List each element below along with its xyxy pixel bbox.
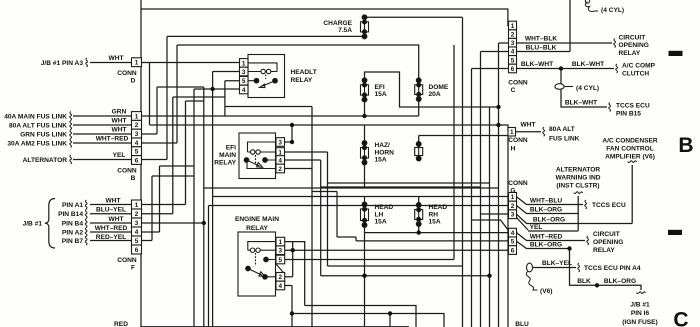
svg-text:6: 6 xyxy=(135,247,139,254)
squiggle TCCS ECU PIN A4 xyxy=(578,263,580,272)
wire vertical x498 xyxy=(498,43,500,327)
marker bar A xyxy=(669,51,683,56)
svg-text:HAZ/: HAZ/ xyxy=(375,142,391,149)
wire squiggly V6 tail xyxy=(526,272,537,291)
svg-text:15A: 15A xyxy=(375,219,387,226)
svg-text:TCCS ECU: TCCS ECU xyxy=(616,102,650,109)
svg-text:EFI: EFI xyxy=(226,145,236,152)
wire below CONN F vertical RED xyxy=(140,255,142,327)
svg-text:4: 4 xyxy=(135,229,139,236)
wire CONN G p3 exit BLK-ORG to A/C amp xyxy=(517,165,633,224)
wire lower box 313 xyxy=(292,314,444,327)
squiggle PIN B4 xyxy=(85,219,87,228)
svg-text:PIN I6: PIN I6 xyxy=(631,310,650,317)
relay EFI MAIN RELAY box xyxy=(239,133,276,179)
wire CONN C p6 feed and exit BLK-WHT xyxy=(472,68,615,70)
svg-text:1: 1 xyxy=(279,239,283,246)
svg-text:BLK–ORG: BLK–ORG xyxy=(533,217,565,224)
svg-text:PIN A2: PIN A2 xyxy=(62,229,83,236)
svg-text:1: 1 xyxy=(135,60,139,67)
squiggle TCCS ECU xyxy=(585,200,587,209)
wire HEAD LH fuse stubs xyxy=(364,197,366,327)
wire headlight relay p5 xyxy=(225,81,240,116)
wire EFI relay p4 out xyxy=(285,160,490,276)
svg-text:15A: 15A xyxy=(375,91,387,98)
svg-text:2: 2 xyxy=(511,203,515,210)
svg-text:3: 3 xyxy=(242,69,246,76)
svg-text:6: 6 xyxy=(511,247,515,254)
svg-text:WARNING IND: WARNING IND xyxy=(555,174,600,181)
svg-text:BLU–YEL: BLU–YEL xyxy=(96,207,126,214)
svg-text:4: 4 xyxy=(511,230,515,237)
squiggle GRN FUS xyxy=(70,130,72,139)
svg-text:4: 4 xyxy=(135,140,139,147)
svg-text:BLK–WHT: BLK–WHT xyxy=(572,61,604,68)
squiggle 30A AM2 xyxy=(70,139,72,148)
wire CONN B p6 YEL riser to bus xyxy=(142,36,168,159)
squiggle A/C condenser amp xyxy=(628,161,637,163)
wire junction branch left xyxy=(157,86,204,88)
svg-text:3: 3 xyxy=(278,139,282,146)
fuse CHARGE 7.5A xyxy=(361,15,369,39)
svg-text:WHT: WHT xyxy=(111,126,126,133)
fuse HEAD RH 15A xyxy=(415,203,423,227)
svg-text:BLK–WHT: BLK–WHT xyxy=(565,99,597,106)
svg-text:G: G xyxy=(510,187,515,194)
wire CONN H p1 exit WHT xyxy=(516,131,542,133)
svg-text:OPENING: OPENING xyxy=(619,42,649,49)
svg-text:RELAY: RELAY xyxy=(291,77,313,84)
squiggle PIN B7 xyxy=(85,236,87,245)
node lower 313 junction right xyxy=(388,311,392,315)
svg-text:BLU–BLK: BLU–BLK xyxy=(526,44,557,51)
wire CONN C p4 feed and exit BLU-BLK xyxy=(481,0,571,52)
svg-text:B: B xyxy=(678,134,693,157)
squiggle PIN B14 xyxy=(85,209,87,218)
svg-text:15A: 15A xyxy=(429,219,441,226)
svg-text:BLK–WHT: BLK–WHT xyxy=(521,61,553,68)
brace J/B #1 xyxy=(45,199,55,249)
svg-text:5: 5 xyxy=(242,78,246,85)
wire BLK-WHT drop to 4CYL oval xyxy=(561,69,607,108)
node headlight relay p4 junction xyxy=(210,87,214,91)
wire head fuse bottoms to CONN G p4 xyxy=(365,232,509,234)
connector CONN B pins 1-6 xyxy=(132,112,142,121)
squiggle ALTERNATOR xyxy=(70,155,72,164)
connector ENGINE relay pins 1,3,5,2,4 xyxy=(276,237,285,246)
wire J/B #1 PIN A3 lead xyxy=(90,62,132,64)
svg-text:1: 1 xyxy=(135,202,139,209)
wire bus to CHARGE fuse bottom xyxy=(167,35,365,37)
wire CONN F p3 to junction xyxy=(142,222,204,224)
svg-text:WHT: WHT xyxy=(520,122,535,129)
wire CONN D p1 to CONN B p2 net xyxy=(149,63,151,126)
svg-text:OPENING: OPENING xyxy=(593,239,623,246)
svg-text:YEL: YEL xyxy=(113,152,126,159)
svg-text:CIRCUIT: CIRCUIT xyxy=(619,34,646,41)
svg-text:20A: 20A xyxy=(429,91,441,98)
wire CONN B pin leads xyxy=(73,116,132,160)
svg-text:BLK: BLK xyxy=(577,278,591,285)
svg-text:PIN A1: PIN A1 xyxy=(62,202,83,209)
svg-text:1: 1 xyxy=(510,129,514,136)
squiggle circuit opening relay bottom xyxy=(587,236,589,245)
wire bottom edge xyxy=(141,326,409,327)
node BLK-WHT junction xyxy=(559,66,563,70)
wire CONN G p4 exit WHT-RED xyxy=(517,233,586,241)
svg-text:4: 4 xyxy=(279,283,283,290)
squiggle 80A ALT FUS LINK right xyxy=(543,127,545,136)
node y275 right xyxy=(487,274,491,278)
svg-text:FUS LINK: FUS LINK xyxy=(549,135,580,142)
svg-text:(IGN FUSE): (IGN FUSE) xyxy=(622,319,658,326)
wire CHARGE fuse top to vertical xyxy=(365,16,463,18)
svg-text:LH: LH xyxy=(375,211,384,218)
squiggle alternator warning ind xyxy=(574,192,583,194)
svg-text:5: 5 xyxy=(279,257,283,264)
svg-text:CLUTCH: CLUTCH xyxy=(622,70,649,77)
svg-text:PIN B7: PIN B7 xyxy=(62,238,84,245)
wire vertical x508 lower xyxy=(507,136,509,327)
wire HAZ fuse bottom stub xyxy=(364,163,366,188)
node lower 313 junction left xyxy=(290,311,294,315)
fuse EFI 15A xyxy=(361,78,369,102)
fuse HAZ/HORN 15A xyxy=(361,141,369,165)
wire line135 to CONN H foot xyxy=(419,135,508,137)
wire EFI relay p2 out xyxy=(285,169,357,327)
svg-text:WHT: WHT xyxy=(105,197,120,204)
svg-text:J/B #1: J/B #1 xyxy=(23,221,43,228)
svg-text:7.5A: 7.5A xyxy=(338,27,352,34)
relay ENGINE internals xyxy=(248,242,276,277)
node BLK-ORG junction at circuit opening relay xyxy=(567,246,571,250)
svg-text:ALTERNATOR: ALTERNATOR xyxy=(556,166,601,173)
svg-text:WHT–RED: WHT–RED xyxy=(96,135,129,142)
svg-text:40A MAIN FUS LINK: 40A MAIN FUS LINK xyxy=(4,113,67,120)
svg-text:3: 3 xyxy=(511,40,515,47)
wire BLK-YEL to TCCS A4 xyxy=(533,267,577,269)
connector oval 4CYL xyxy=(555,84,564,90)
wire CONN G p1 exit to TCCS ECU xyxy=(517,197,584,205)
wire headlight relay p3/p4 riser xyxy=(212,72,214,197)
svg-text:MAIN: MAIN xyxy=(219,152,236,159)
node bus125/EFI relay p3 xyxy=(290,123,294,127)
svg-text:CONN: CONN xyxy=(508,137,528,144)
squiggle circuit opening relay top xyxy=(614,39,616,48)
squiggle 40A MAIN xyxy=(70,112,72,121)
svg-text:CONN: CONN xyxy=(117,168,137,175)
svg-text:RELAY: RELAY xyxy=(214,160,236,167)
svg-text:BLU: BLU xyxy=(515,321,529,327)
svg-text:5: 5 xyxy=(511,239,515,246)
node BLK junction xyxy=(595,283,599,287)
connector CONN H pin 1 xyxy=(508,128,516,137)
svg-text:3: 3 xyxy=(135,131,139,138)
wire bus to DOME fuse top xyxy=(177,45,419,80)
svg-text:CONN: CONN xyxy=(508,79,528,86)
svg-text:6: 6 xyxy=(511,66,515,73)
svg-text:1: 1 xyxy=(511,194,515,201)
wire vertical x489 xyxy=(489,107,491,327)
svg-text:RELAY: RELAY xyxy=(593,247,615,254)
relay ENGINE crossover box diagonal xyxy=(276,264,285,274)
node y107/x498 xyxy=(496,105,500,109)
wire CONN F p2 riser xyxy=(142,97,225,214)
relay HEADLT internals xyxy=(248,63,277,86)
svg-text:B: B xyxy=(131,175,136,182)
svg-text:WHT–BLU: WHT–BLU xyxy=(530,198,562,205)
squiggle PIN A1 xyxy=(85,200,87,209)
svg-text:(4 CYL): (4 CYL) xyxy=(576,85,599,92)
wire bus125 CONN B p2 to CONN H xyxy=(150,125,509,132)
connector CONN C pins 1-6 xyxy=(509,21,517,30)
svg-text:2: 2 xyxy=(135,211,139,218)
svg-text:4: 4 xyxy=(278,157,282,164)
svg-text:WHT–RED: WHT–RED xyxy=(530,234,563,241)
wire HAZ fuse top stub xyxy=(364,125,366,143)
svg-text:HEADLT: HEADLT xyxy=(291,69,317,76)
svg-text:GRN: GRN xyxy=(112,108,127,115)
wire lower box 305 xyxy=(305,306,416,327)
wire bus188 xyxy=(204,187,499,189)
svg-text:BLK–ORG: BLK–ORG xyxy=(530,242,562,249)
svg-text:3: 3 xyxy=(279,248,283,255)
squiggle 80A ALT xyxy=(70,121,72,130)
svg-text:J/B #1 PIN A3: J/B #1 PIN A3 xyxy=(41,60,84,67)
wire HEAD RH fuse stubs xyxy=(418,197,420,233)
svg-text:CHARGE: CHARGE xyxy=(323,20,352,27)
svg-text:CONN: CONN xyxy=(508,180,528,187)
wire CONN F p5 riser xyxy=(142,176,195,241)
wire EFI relay p1 out xyxy=(285,152,490,266)
wire headlight relay p3 xyxy=(213,71,240,73)
svg-text:ENGINE MAIN: ENGINE MAIN xyxy=(235,216,279,223)
svg-text:5: 5 xyxy=(135,238,139,245)
svg-text:(INST CLSTR): (INST CLSTR) xyxy=(556,183,599,190)
wire vertical x462 xyxy=(462,17,464,327)
svg-text:(4 CYL): (4 CYL) xyxy=(601,7,624,14)
svg-text:PIN B14: PIN B14 xyxy=(58,211,83,218)
svg-text:BLK–YEL: BLK–YEL xyxy=(542,260,572,267)
svg-text:15A: 15A xyxy=(375,157,387,164)
svg-text:1: 1 xyxy=(278,149,282,156)
node bus125/CONN H feed xyxy=(496,123,500,127)
svg-text:CONN: CONN xyxy=(117,70,137,77)
svg-text:WHT–RED: WHT–RED xyxy=(95,225,128,232)
svg-text:4: 4 xyxy=(511,49,515,56)
svg-text:WHT: WHT xyxy=(108,55,123,62)
svg-text:ALTERNATOR: ALTERNATOR xyxy=(23,157,68,164)
svg-text:RELAY: RELAY xyxy=(619,50,641,57)
svg-text:WHT: WHT xyxy=(108,216,123,223)
svg-text:J/B #1: J/B #1 xyxy=(630,301,650,308)
wire 4CYL top curl xyxy=(585,2,598,12)
node GRN/EFI fuse junction xyxy=(362,114,366,118)
wire right fuse top stub xyxy=(418,136,420,145)
wire GRN line CONN B p1 to DOME bottom xyxy=(142,99,419,116)
wire vertical x480 xyxy=(480,52,482,327)
squiggle J/B A3 xyxy=(86,58,88,67)
svg-text:D: D xyxy=(131,77,136,84)
node head fuse bottom junction xyxy=(417,230,421,234)
svg-text:RELAY: RELAY xyxy=(246,225,268,232)
wire engine relay p1 xyxy=(285,242,305,306)
wire YEL crossover left xyxy=(472,220,509,231)
svg-text:HORN: HORN xyxy=(375,149,395,156)
svg-text:1: 1 xyxy=(242,60,246,67)
svg-text:HEAD: HEAD xyxy=(375,204,394,211)
wire CONN F p4 riser xyxy=(142,166,195,232)
wire drop to BLK J/B I6 xyxy=(570,249,642,291)
svg-text:80A ALT: 80A ALT xyxy=(549,126,575,133)
svg-text:YEL: YEL xyxy=(530,224,543,231)
fuse unlabeled right xyxy=(415,142,423,161)
svg-text:F: F xyxy=(131,264,135,271)
fuse HEAD LH 15A xyxy=(361,202,369,227)
wire vertical x471 xyxy=(471,69,473,327)
marker bar C xyxy=(668,230,682,235)
svg-text:A/C COMP: A/C COMP xyxy=(622,63,656,70)
squiggle J/B #1 PIN I6 xyxy=(637,292,646,294)
connector CONN G pins 1-6 xyxy=(509,193,517,202)
wire CONN F p1 riser xyxy=(142,101,204,205)
svg-text:CONN: CONN xyxy=(117,257,137,264)
wire top bus WHT xyxy=(140,0,142,58)
node EFI relay p3 xyxy=(290,140,294,144)
wire EFI fuse top path xyxy=(365,72,499,107)
svg-text:4: 4 xyxy=(242,87,246,94)
wire CONN C p3 feed and exit WHT-BLK xyxy=(499,42,613,44)
wire vertical x203.8 xyxy=(203,87,205,327)
svg-text:6: 6 xyxy=(135,157,139,164)
svg-text:TCCS ECU PIN A4: TCCS ECU PIN A4 xyxy=(584,265,641,272)
wire CONN B to CONN F vertical xyxy=(140,165,142,201)
wire engine relay p4 xyxy=(285,286,292,327)
svg-text:(V6): (V6) xyxy=(540,288,552,295)
wire engine relay p2 xyxy=(285,276,293,278)
wire CONN D to CONN B vertical xyxy=(140,67,142,112)
svg-text:3: 3 xyxy=(511,212,515,219)
wire x385 drop xyxy=(389,314,391,327)
wire relay area link 106 xyxy=(225,107,312,169)
wire CONN G p5 exit BLK-ORG xyxy=(517,241,570,248)
wire CONN G p5 feed xyxy=(356,240,509,242)
relay HEADLT RELAY box xyxy=(248,55,285,98)
svg-text:2: 2 xyxy=(278,166,282,173)
svg-text:30A AM2 FUS LINK: 30A AM2 FUS LINK xyxy=(7,140,67,147)
wire dash to 4CYL text xyxy=(564,86,573,88)
connector EFI relay pins 3,1,4,2 xyxy=(276,138,285,147)
svg-text:PIN B15: PIN B15 xyxy=(616,110,641,117)
connector CONN F pins 1-6 xyxy=(132,200,142,209)
svg-text:FAN CONTROL: FAN CONTROL xyxy=(606,145,654,152)
svg-text:2: 2 xyxy=(279,274,283,281)
connector HEADLT relay pins 1,3,5,4 xyxy=(240,59,249,68)
wire EFI fuse bottom stub xyxy=(364,100,366,116)
wire YEL to alternator warning xyxy=(517,196,579,231)
wire engine relay p5 xyxy=(285,45,454,260)
node engine relay p3 junction xyxy=(291,248,295,252)
svg-text:RH: RH xyxy=(429,211,439,218)
svg-text:A/C CONDENSER: A/C CONDENSER xyxy=(602,137,658,144)
svg-text:1: 1 xyxy=(135,113,139,120)
svg-text:AMPLIFIER (V6): AMPLIFIER (V6) xyxy=(605,153,655,160)
wire headlight relay p4 xyxy=(194,88,240,90)
svg-text:C: C xyxy=(673,308,688,327)
svg-text:1: 1 xyxy=(511,23,515,30)
svg-text:TCCS ECU: TCCS ECU xyxy=(592,202,626,209)
connector CONN D pin 1 xyxy=(132,58,142,67)
squiggle TCCS ECU PIN B15 xyxy=(609,103,611,112)
connector oval BLK-YEL xyxy=(527,263,533,272)
wire bus196 to CONN G p1 xyxy=(213,196,509,198)
wire vertical x208.5 bus riser xyxy=(208,206,210,327)
wire CONN G p3 feed xyxy=(481,213,509,215)
wire CONN G p2 exit BLK-ORG xyxy=(517,206,579,214)
relay ENGINE MAIN RELAY box xyxy=(238,232,276,296)
wire CONN B p3 riser xyxy=(142,87,158,134)
wire CONN B p4 riser to bus xyxy=(142,45,178,143)
fuse DOME 20A xyxy=(415,78,423,102)
wire vertical x212.6 lower xyxy=(212,197,214,327)
svg-text:WHT: WHT xyxy=(111,117,126,124)
svg-text:5: 5 xyxy=(135,149,139,156)
svg-text:GRN FUS LINK: GRN FUS LINK xyxy=(20,131,67,138)
wire vertical x194 xyxy=(193,89,195,327)
wire CONN D p1 to headlight relay p1 xyxy=(142,62,240,64)
wire engine relay p3 xyxy=(285,249,509,251)
node CONN F p3 junction xyxy=(202,221,206,225)
svg-text:WHT–BLK: WHT–BLK xyxy=(525,36,557,43)
node y275 fuse col xyxy=(362,274,366,278)
wire bus205 to CONN G p2 xyxy=(209,205,509,207)
svg-text:HEAD: HEAD xyxy=(429,204,448,211)
svg-text:PIN B4: PIN B4 xyxy=(62,220,84,227)
svg-text:BLK–ORG: BLK–ORG xyxy=(530,207,562,214)
svg-text:80A ALT FUS LINK: 80A ALT FUS LINK xyxy=(9,122,67,129)
svg-text:H: H xyxy=(511,145,516,152)
svg-text:CIRCUIT: CIRCUIT xyxy=(593,231,620,238)
svg-text:BLK–ORG: BLK–ORG xyxy=(604,278,636,285)
svg-text:5: 5 xyxy=(511,57,515,64)
svg-text:RED: RED xyxy=(114,321,128,327)
svg-text:C: C xyxy=(511,87,516,94)
svg-text:RED–YEL: RED–YEL xyxy=(96,234,126,241)
squiggle A/C comp clutch xyxy=(616,64,618,73)
svg-text:2: 2 xyxy=(511,32,515,39)
svg-text:2: 2 xyxy=(135,122,139,129)
relay EFI internals xyxy=(247,142,277,169)
wire CONN F pin leads xyxy=(90,205,132,241)
svg-text:3: 3 xyxy=(135,220,139,227)
wire EFI relay p3 feed xyxy=(285,125,293,142)
squiggle PIN A2 xyxy=(85,228,87,237)
